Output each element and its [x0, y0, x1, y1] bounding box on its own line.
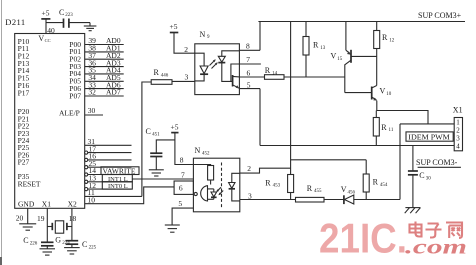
N452 pin 6 box	[174, 181, 193, 194]
N9 light arrows	[210, 59, 218, 68]
transistor V15 (PNP)	[331, 22, 377, 93]
N9 internal phototransistor	[231, 64, 240, 89]
ground under N452 pin 5	[165, 225, 180, 232]
svg-text:6: 6	[179, 184, 183, 193]
svg-text:GND: GND	[18, 200, 35, 209]
svg-text:30: 30	[426, 177, 432, 182]
IC pin 16 line with bubble	[85, 152, 132, 162]
svg-text:13: 13	[320, 46, 326, 51]
SUP COM3- return line	[260, 145, 454, 147]
svg-text:V: V	[380, 87, 386, 96]
svg-text:P17: P17	[18, 88, 30, 97]
IC left pin labels P20-P27	[18, 107, 30, 166]
wire R454 feed from +V drop	[291, 159, 367, 161]
svg-text:223: 223	[65, 13, 73, 18]
IC right pin labels P00-P07	[69, 40, 81, 101]
IC left pin labels P10-P17	[18, 37, 30, 98]
svg-text:C: C	[419, 171, 424, 180]
IC pin 11 wire to N452 pin 6	[85, 188, 142, 197]
wire N9 pin 8 up to +V rail	[259, 22, 261, 51]
svg-text:CC: CC	[45, 38, 51, 43]
svg-text:14: 14	[272, 71, 278, 76]
resistor R454	[363, 160, 388, 200]
svg-text:1: 1	[456, 118, 460, 126]
label N452	[195, 146, 211, 157]
N452 internal gate with bubble	[194, 186, 207, 201]
label N9	[200, 30, 211, 40]
svg-text:P07: P07	[69, 91, 81, 100]
svg-text:R: R	[154, 68, 160, 77]
N452 internal resistor	[193, 165, 213, 185]
svg-text:N: N	[200, 30, 206, 39]
wire INT1 label to N452 pin 7	[132, 170, 193, 179]
resistor R455	[296, 184, 325, 202]
svg-text:8: 8	[246, 41, 250, 50]
transistor V10 (NPN)	[345, 86, 392, 101]
svg-text:C: C	[23, 236, 28, 245]
wire V456 to chassis node	[354, 199, 400, 201]
resistor R446	[151, 68, 172, 84]
N9 pin 7 stub	[239, 55, 261, 64]
svg-text:2: 2	[456, 126, 460, 134]
wire R455 to V456	[324, 199, 344, 201]
wire X1 pin 1 node down to bottom return rail	[399, 124, 401, 200]
IC pin 19 lead	[37, 208, 47, 242]
svg-text:V: V	[341, 185, 347, 194]
svg-text:455: 455	[314, 189, 322, 194]
svg-text:12: 12	[389, 39, 395, 44]
ground under pin 20	[19, 224, 36, 230]
svg-text:32: 32	[88, 88, 96, 97]
resistor R13	[303, 22, 326, 78]
svg-text:V: V	[331, 52, 337, 61]
svg-text:6: 6	[247, 68, 251, 77]
svg-text:+5: +5	[171, 122, 179, 131]
wire +5 to N9 pin 2	[174, 33, 195, 54]
svg-text:453: 453	[273, 184, 281, 189]
IC pin labels GND X1 X2	[18, 200, 77, 209]
wire N9 pin 5 down to SUP COM3- line	[259, 89, 261, 146]
N452 light arrows	[216, 187, 223, 195]
label G224	[55, 236, 70, 247]
N452 internal receiver diode	[208, 189, 217, 199]
svg-text:IDEM PWM: IDEM PWM	[408, 133, 450, 142]
svg-text:8: 8	[180, 156, 184, 165]
crystal G224	[47, 221, 72, 233]
resistor R14	[265, 66, 285, 79]
IC pin 20 ground lead	[16, 208, 28, 223]
svg-text:18: 18	[69, 214, 77, 223]
ground near C223	[84, 23, 97, 31]
svg-text:INT0 L: INT0 L	[108, 183, 128, 190]
svg-text:10: 10	[386, 92, 392, 97]
net label SUP COM3-	[416, 158, 461, 168]
capacitor C226	[23, 236, 53, 249]
svg-text:P27: P27	[18, 158, 30, 167]
capacitor C223	[64, 19, 69, 28]
ground under C225	[64, 248, 80, 254]
svg-text:40: 40	[47, 26, 55, 35]
svg-text:+5: +5	[170, 22, 178, 31]
wire R446 to N9 pin 3	[172, 80, 195, 82]
svg-text:451: 451	[152, 133, 160, 138]
svg-text:R: R	[382, 33, 388, 42]
svg-text:454: 454	[380, 183, 388, 188]
resistor R453	[265, 175, 293, 200]
+5 power symbol above N9 pin 2	[170, 22, 179, 32]
IC pin 40 lead	[46, 19, 55, 35]
AD bus pins 39-32 AD0-AD7	[85, 36, 124, 96]
capacitor C451	[146, 127, 175, 170]
svg-text:C: C	[146, 127, 151, 136]
svg-text:SUP COM3+: SUP COM3+	[418, 11, 462, 20]
svg-text:11: 11	[389, 128, 394, 133]
svg-text:V: V	[38, 34, 44, 43]
ground under C226	[40, 249, 56, 255]
wire C223 to ground	[69, 22, 90, 24]
svg-text:X2: X2	[68, 200, 77, 209]
diode V456	[341, 185, 356, 204]
svg-text:10: 10	[88, 195, 96, 204]
svg-text:D211: D211	[5, 17, 25, 27]
capacitor C30	[408, 146, 431, 208]
N9 internal photodiode	[218, 51, 239, 82]
IC pin label P35 RESET	[18, 172, 41, 189]
IC pin 30 ALE line	[85, 106, 103, 115]
IC pin 13 line with bubble	[85, 174, 132, 184]
resistor R12	[374, 22, 395, 86]
+V rail SUP COM3+	[258, 11, 465, 21]
IC U1 D211 box	[15, 34, 85, 209]
wire V10 emitter to X1 pin 1	[377, 101, 454, 124]
svg-text:N: N	[195, 146, 201, 155]
+5 power symbol at Vcc	[41, 9, 50, 19]
wire R446 left lead down to pins 10/11 node	[142, 82, 151, 196]
wire +5 to C223	[46, 22, 63, 24]
+5 power symbol above N452 pin 8	[171, 122, 179, 132]
svg-text:5: 5	[178, 199, 182, 208]
svg-text:R: R	[307, 184, 313, 193]
label C223	[59, 8, 73, 18]
svg-text:.com: .com	[405, 235, 467, 259]
svg-text:19: 19	[37, 214, 45, 223]
svg-text:G: G	[55, 236, 61, 245]
svg-text:225: 225	[89, 246, 97, 251]
svg-text:R: R	[265, 66, 271, 75]
svg-text:4: 4	[456, 142, 460, 150]
net label IDEM PWM	[406, 132, 453, 142]
svg-text:X1: X1	[42, 200, 51, 209]
svg-text:30: 30	[88, 106, 96, 115]
svg-text:C: C	[59, 8, 64, 17]
ground under C451	[149, 170, 164, 176]
bottom return wire N452 pin 3 to R455	[240, 199, 296, 201]
svg-text:R: R	[381, 123, 387, 132]
N9 internal LED	[195, 53, 208, 81]
label Vcc	[38, 34, 50, 43]
N452 internal LED	[229, 173, 240, 201]
N9 pin 8 stub	[239, 41, 260, 50]
svg-text:R: R	[313, 41, 319, 50]
net label INT0	[102, 182, 132, 190]
IC pin 14 line with bubble	[85, 166, 132, 176]
N452 pin 5 wire to ground	[172, 199, 193, 224]
svg-text:446: 446	[161, 74, 169, 79]
svg-text:RESET: RESET	[18, 180, 41, 189]
resistor R11	[373, 111, 394, 146]
opto-coupler N9 box	[195, 44, 240, 95]
net label INT1	[102, 175, 132, 183]
connector X1	[453, 106, 463, 151]
logo 21IC.com watermark	[319, 215, 467, 262]
svg-text:2: 2	[184, 45, 188, 54]
net label VAWRITE	[101, 167, 139, 176]
svg-text:R: R	[373, 178, 379, 187]
IC pin 17 line with bubble	[85, 144, 132, 154]
svg-text:21IC.: 21IC.	[319, 215, 407, 262]
svg-text:226: 226	[30, 241, 38, 246]
N9 pin 5 stub	[239, 80, 260, 89]
svg-text:3: 3	[185, 73, 189, 82]
svg-text:+5: +5	[42, 9, 50, 18]
svg-text:R: R	[265, 178, 271, 187]
svg-text:5: 5	[247, 80, 251, 89]
IC pin 18 lead	[69, 208, 77, 240]
svg-text:15: 15	[337, 57, 343, 62]
svg-text:456: 456	[348, 190, 356, 195]
svg-text:7: 7	[181, 170, 185, 179]
chassis ground near C30	[405, 208, 421, 214]
svg-text:3: 3	[456, 134, 460, 142]
opto-coupler N452 box	[193, 158, 239, 212]
svg-text:AD7: AD7	[106, 88, 121, 97]
IC pin 10 wire to N452 pin 6	[85, 187, 174, 205]
N452 isolation dashed line	[221, 163, 223, 209]
+V drop wire from rail to R453	[290, 22, 292, 175]
svg-text:ALE/P: ALE/P	[59, 109, 80, 118]
IC pin 31 line	[85, 137, 132, 146]
wire +5 to N452 pin 8	[175, 133, 194, 165]
svg-text:SUP COM3-: SUP COM3-	[416, 158, 458, 167]
IC pin 12 line with bubble	[85, 181, 132, 191]
wire N452 pin 2 up to +V drop	[240, 164, 291, 173]
svg-text:7: 7	[246, 55, 250, 64]
svg-text:X1: X1	[453, 106, 463, 115]
svg-text:2: 2	[247, 164, 251, 173]
N9 pin 6 stub	[239, 68, 264, 77]
IC pin 25 line with bubble	[85, 159, 132, 169]
capacitor C225	[66, 240, 97, 251]
svg-text:20: 20	[16, 213, 24, 222]
wire R14 to V15 collector node	[284, 76, 345, 78]
svg-text:452: 452	[202, 151, 210, 156]
svg-text:C: C	[82, 240, 87, 249]
